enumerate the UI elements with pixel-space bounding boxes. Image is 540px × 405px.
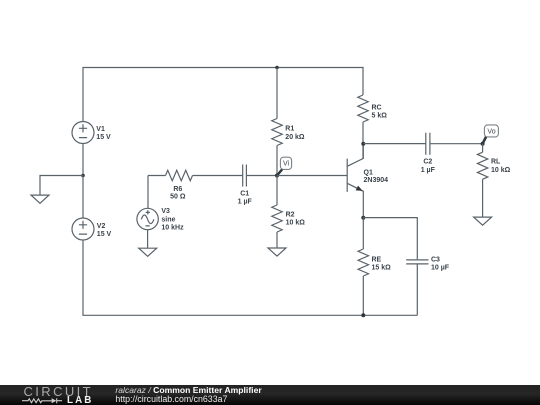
node bottom rail junction dot <box>361 313 365 317</box>
voltage source V2 <box>72 176 94 241</box>
svg-text:R6: R6 <box>173 186 182 193</box>
svg-text:RE: RE <box>372 256 382 263</box>
node Vo junction dot <box>481 142 485 146</box>
node top junction dot R1 <box>275 66 279 70</box>
node emitter junction dot <box>361 216 365 220</box>
node flag Vi <box>277 157 292 175</box>
capacitor C2 <box>426 133 483 155</box>
logo LAB <box>67 396 93 405</box>
svg-text:R2: R2 <box>286 211 295 218</box>
resistor R2 <box>272 176 282 249</box>
ground R2 <box>268 248 286 256</box>
capacitor C3 <box>406 260 428 315</box>
resistor R6 <box>148 170 243 180</box>
wire V2 bottom to bottom rail <box>83 240 417 315</box>
wire to left ground <box>40 176 83 196</box>
wire top rail and left rail <box>83 68 363 122</box>
resistor RE <box>358 218 368 316</box>
wire V1 bottom to mid junction <box>82 144 84 176</box>
ground RL <box>474 217 492 225</box>
resistor RL <box>477 144 487 217</box>
node collector junction dot <box>361 142 365 146</box>
node mid-left junction <box>81 174 85 178</box>
capacitor C1 <box>243 165 277 187</box>
svg-text:Q1: Q1 <box>364 169 373 176</box>
svg-text:R1: R1 <box>285 126 294 133</box>
svg-text:RC: RC <box>372 104 382 111</box>
svg-text:50 Ω: 50 Ω <box>170 193 186 200</box>
svg-text:10 kΩ: 10 kΩ <box>286 220 306 227</box>
title line <box>115 386 261 394</box>
ground left <box>31 195 49 203</box>
svg-text:C2: C2 <box>423 158 432 165</box>
svg-text:1 µF: 1 µF <box>238 198 253 205</box>
svg-text:V1: V1 <box>96 126 105 133</box>
svg-text:C1: C1 <box>240 190 249 197</box>
svg-text:sine: sine <box>161 216 175 223</box>
svg-text:1 µF: 1 µF <box>421 167 436 174</box>
svg-text:Vi: Vi <box>283 161 290 168</box>
node Vi junction dot <box>275 174 279 178</box>
svg-text:10 kΩ: 10 kΩ <box>491 167 511 174</box>
voltage source V1 <box>72 122 94 144</box>
svg-text:V3: V3 <box>161 208 170 215</box>
svg-text:20 kΩ: 20 kΩ <box>285 134 305 141</box>
svg-text:Vo: Vo <box>487 129 495 136</box>
logo CIRCUIT <box>24 385 94 398</box>
voltage source V3 sine <box>137 176 158 230</box>
svg-text:15 V: 15 V <box>97 231 112 238</box>
ground V3 <box>139 248 157 256</box>
url line <box>115 395 227 404</box>
wire base <box>277 175 347 177</box>
node flag Vo <box>483 125 499 144</box>
resistor R1 <box>272 68 282 176</box>
svg-text:V2: V2 <box>97 223 106 230</box>
transistor Q1 <box>347 144 363 218</box>
svg-text:15 V: 15 V <box>96 134 111 141</box>
svg-text:RL: RL <box>491 158 501 165</box>
svg-text:10 µF: 10 µF <box>431 265 450 272</box>
svg-text:2N3904: 2N3904 <box>364 177 389 184</box>
footer bar <box>0 385 540 405</box>
wire collector to C2 <box>363 143 426 145</box>
wire emitter to C3 <box>363 218 417 260</box>
svg-text:5 kΩ: 5 kΩ <box>372 113 388 120</box>
svg-text:C3: C3 <box>431 256 440 263</box>
resistor RC <box>358 95 368 158</box>
svg-text:15 kΩ: 15 kΩ <box>372 265 392 272</box>
svg-text:10 kHz: 10 kHz <box>161 225 184 232</box>
wire V3 bottom stub <box>147 230 149 249</box>
